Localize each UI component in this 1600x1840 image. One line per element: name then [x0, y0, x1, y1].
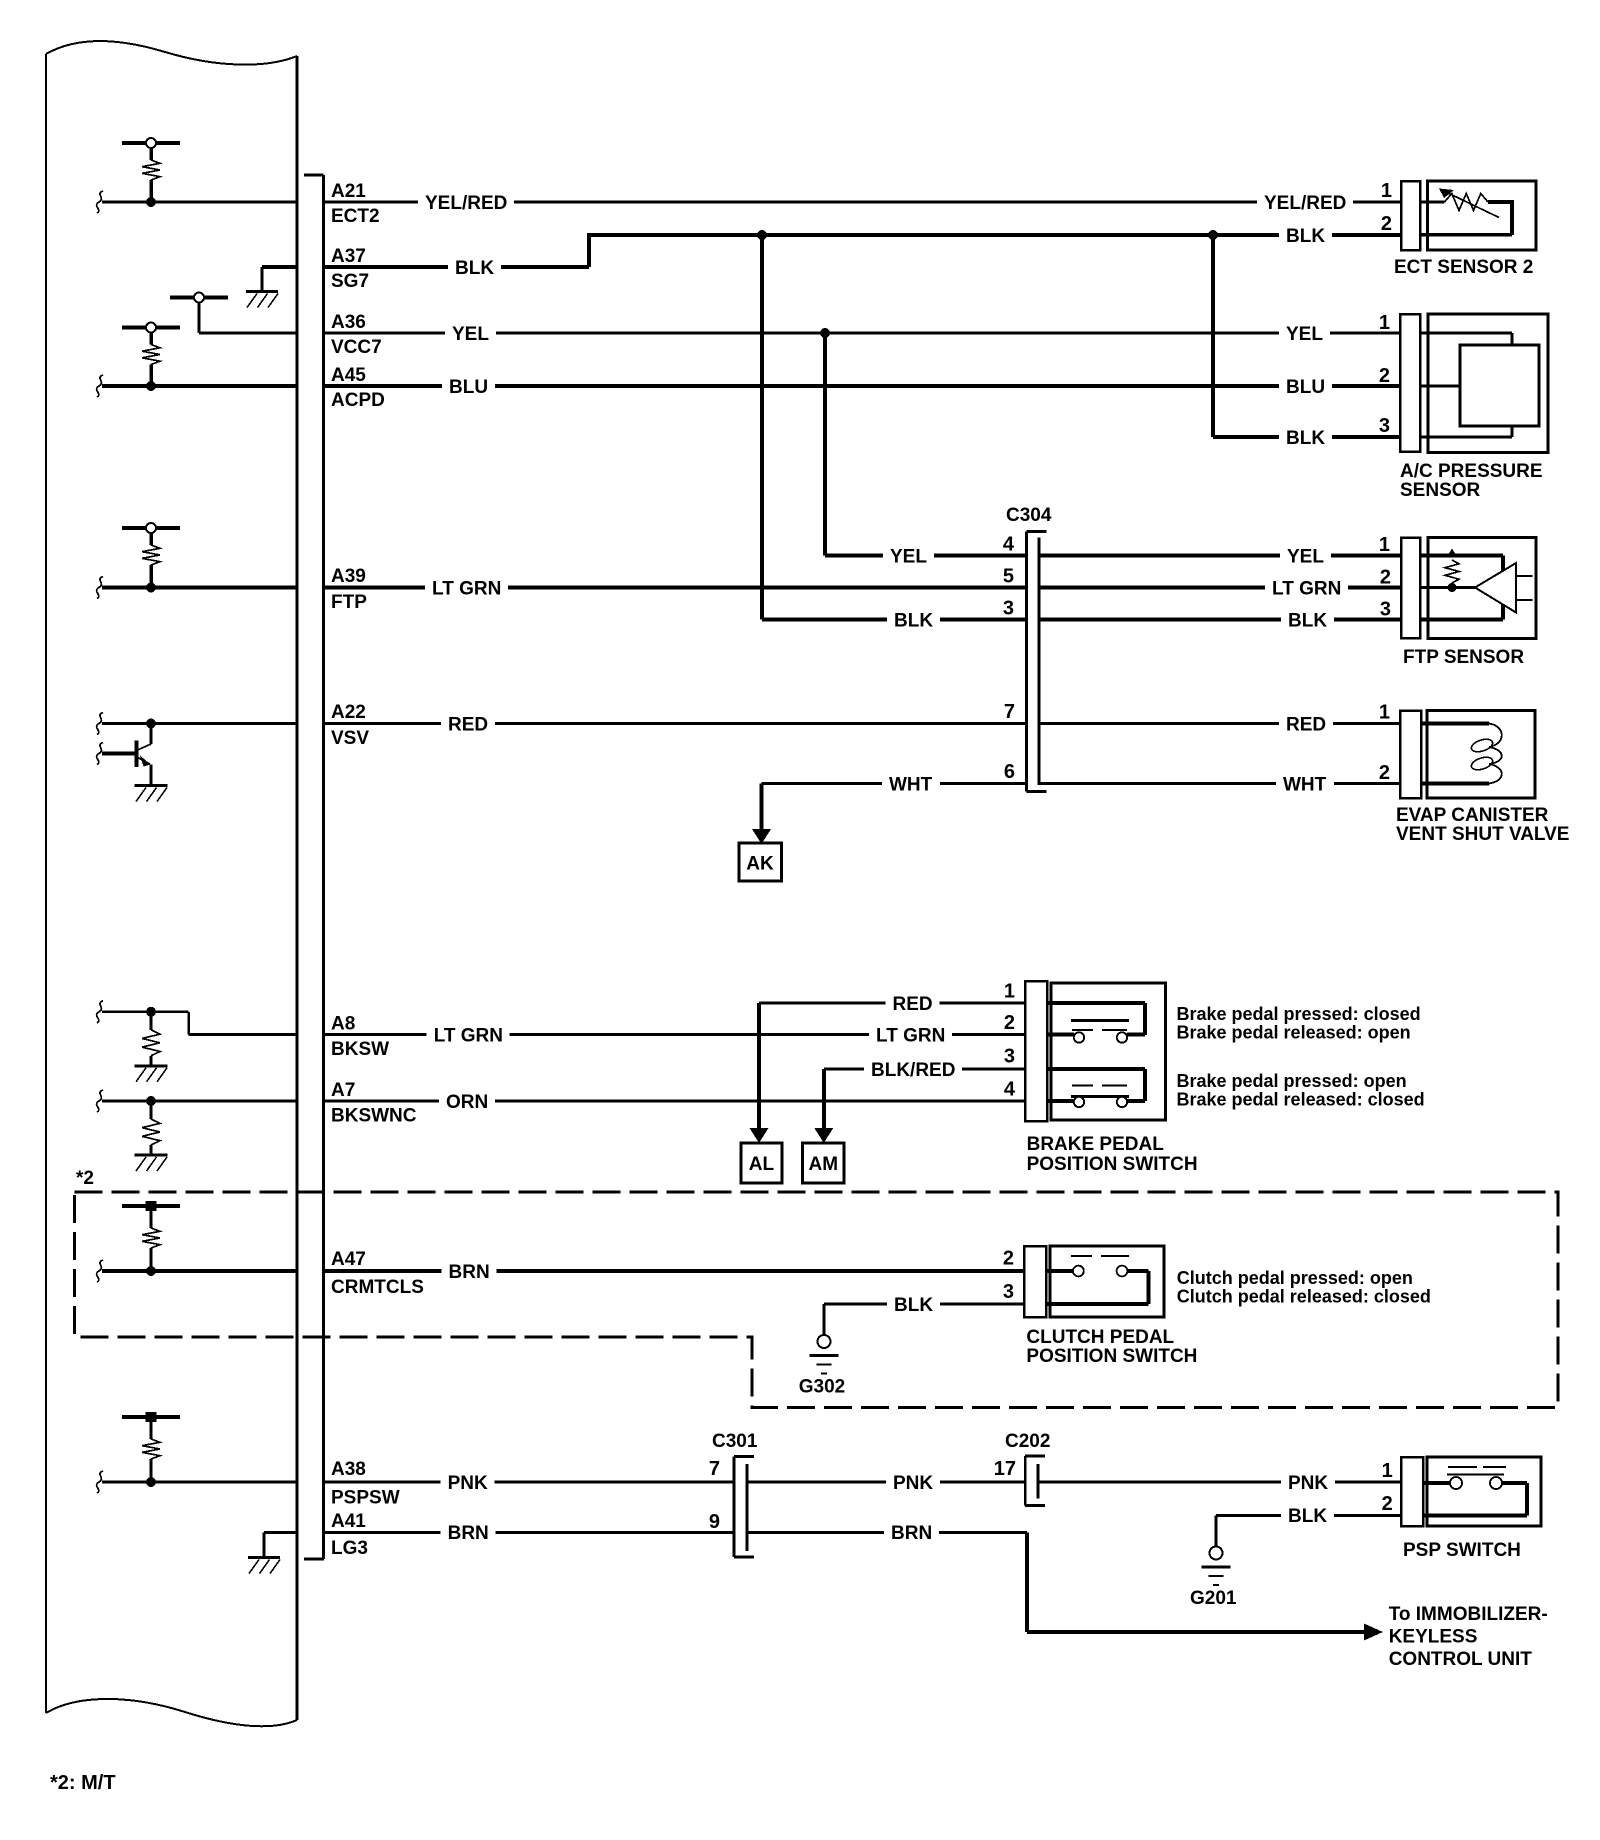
- svg-text:2: 2: [1380, 567, 1391, 589]
- PSP switch box: [1427, 1457, 1541, 1526]
- voltage tap at A36: [170, 295, 228, 299]
- M/T option dashed box: [75, 1192, 1559, 1408]
- connector AK box: [739, 843, 782, 881]
- wire A47 BRN to clutch pedal switch pin 2: [102, 1269, 1024, 1273]
- svg-text:YEL: YEL: [452, 324, 489, 345]
- wire A38 PNK to PSP switch pin 1: [102, 1481, 1401, 1484]
- svg-text:PSPSW: PSPSW: [331, 1488, 400, 1509]
- FTP sensor amplifier triangle: [1475, 563, 1516, 613]
- svg-text:1: 1: [1004, 981, 1015, 1003]
- svg-text:C202: C202: [1005, 1431, 1050, 1452]
- wire BLK from clutch switch pin 3 to G302: [824, 1303, 1024, 1306]
- svg-text:2: 2: [1379, 762, 1390, 784]
- wire A45 BLU to A/C pressure sensor pin 2: [102, 384, 1401, 388]
- brake switch pin2 stub: [1047, 1032, 1074, 1036]
- ground at LG3 inside ECM: [262, 1532, 265, 1556]
- svg-text:A8: A8: [331, 1014, 355, 1035]
- wire A41 BRN to immobilizer: [264, 1531, 1027, 1534]
- PSP switch contact bridge: [1447, 1474, 1504, 1476]
- svg-text:LT GRN: LT GRN: [432, 578, 501, 599]
- svg-text:CLUTCH PEDAL: CLUTCH PEDAL: [1026, 1327, 1174, 1348]
- wire A37 BLK: [262, 265, 589, 269]
- svg-text:AM: AM: [809, 1154, 839, 1175]
- wire BLK drop to C304 pin 3 / FTP sensor: [760, 235, 764, 620]
- FTP sensor box: [1428, 538, 1536, 639]
- svg-text:AL: AL: [749, 1154, 775, 1175]
- arrow to immobilizer-keyless control unit: [1364, 1624, 1383, 1641]
- svg-text:YEL/RED: YEL/RED: [1264, 193, 1346, 214]
- svg-text:BLU: BLU: [449, 377, 488, 398]
- svg-text:KEYLESS: KEYLESS: [1389, 1627, 1478, 1648]
- driver transistor inside ECM: [149, 724, 152, 745]
- svg-text:A39: A39: [331, 566, 366, 587]
- svg-text:RED: RED: [893, 994, 933, 1015]
- wire BRN drop and run to immobilizer arrow: [1025, 1532, 1029, 1632]
- svg-text:7: 7: [709, 1458, 720, 1480]
- pull-up resistor at A39: [122, 526, 180, 530]
- svg-text:A22: A22: [331, 702, 366, 723]
- connector C202: [1027, 1458, 1037, 1505]
- svg-text:2: 2: [1004, 1012, 1015, 1034]
- pull-up resistor at A47: [122, 1204, 180, 1208]
- junction node YEL at x825: [820, 328, 830, 338]
- break symbol A38 wire: [97, 1471, 103, 1493]
- connector C304: [1028, 533, 1038, 790]
- svg-text:BKSWNC: BKSWNC: [331, 1106, 417, 1127]
- svg-text:1: 1: [1382, 1460, 1393, 1482]
- A/C pressure sensor pin1 internal bracket: [1420, 331, 1512, 334]
- wire BLK/RED from brake pedal switch pin 3 to AM: [824, 1068, 1025, 1071]
- svg-text:PNK: PNK: [1288, 1473, 1328, 1494]
- svg-text:YEL/RED: YEL/RED: [425, 193, 507, 214]
- brake switch upper contact feed: [1047, 1001, 1145, 1005]
- svg-text:A38: A38: [331, 1459, 366, 1480]
- svg-text:Brake pedal pressed: closed: Brake pedal pressed: closed: [1177, 1004, 1421, 1024]
- brake pedal switch box: [1051, 983, 1166, 1120]
- svg-text:A47: A47: [331, 1249, 366, 1270]
- svg-text:4: 4: [1003, 534, 1015, 556]
- FTP sensor internal resistor: [1445, 560, 1459, 583]
- svg-text:LG3: LG3: [331, 1538, 368, 1559]
- FTP sensor internal bracket: [1420, 554, 1503, 558]
- svg-text:7: 7: [1004, 701, 1015, 723]
- svg-text:2: 2: [1379, 365, 1390, 387]
- svg-text:SG7: SG7: [331, 271, 369, 292]
- wire A21 YEL/RED to ECT sensor 2 pin 1: [102, 201, 1401, 204]
- svg-text:3: 3: [1379, 415, 1390, 437]
- wire WHT drop to AK: [759, 784, 763, 831]
- svg-text:YEL: YEL: [1286, 324, 1323, 345]
- PSP switch contact circles: [1450, 1477, 1462, 1489]
- svg-text:ECT2: ECT2: [331, 206, 380, 227]
- svg-text:AK: AK: [746, 854, 774, 875]
- svg-text:4: 4: [1004, 1079, 1016, 1101]
- wire BLK horizontal to ECT sensor 2 pin 2: [589, 233, 1401, 237]
- FTP sensor output stubs: [1516, 575, 1533, 577]
- wire A7 ORN to brake pedal switch pin 4: [102, 1100, 1025, 1103]
- connector C301: [735, 1458, 745, 1556]
- svg-text:Clutch pedal released: closed: Clutch pedal released: closed: [1177, 1287, 1431, 1307]
- brake switch upper bridge bar: [1071, 1019, 1129, 1022]
- svg-text:G302: G302: [799, 1377, 845, 1398]
- wire BLK from PSP switch pin 2 to G201: [1216, 1514, 1401, 1517]
- svg-text:A41: A41: [331, 1511, 366, 1532]
- svg-text:BRAKE PEDAL: BRAKE PEDAL: [1027, 1134, 1165, 1155]
- svg-text:RED: RED: [448, 714, 488, 735]
- ECM body left edge: [45, 54, 47, 1713]
- A/C pressure sensor box: [1428, 314, 1548, 453]
- svg-text:C304: C304: [1006, 505, 1052, 526]
- svg-text:WHT: WHT: [1283, 774, 1327, 795]
- wire BLK step up: [587, 233, 591, 267]
- svg-text:RED: RED: [1286, 714, 1326, 735]
- clutch switch contact circles: [1073, 1266, 1084, 1277]
- pull-up resistor at A21: [122, 141, 180, 145]
- svg-text:BRN: BRN: [448, 1523, 489, 1544]
- PSP switch contact arms: [1448, 1466, 1477, 1468]
- break symbol A7 wire: [97, 1090, 103, 1112]
- FTP sensor connector: [1401, 538, 1420, 639]
- svg-text:CONTROL UNIT: CONTROL UNIT: [1389, 1649, 1533, 1670]
- svg-text:CRMTCLS: CRMTCLS: [331, 1277, 424, 1298]
- pull-up resistor at A45: [122, 325, 180, 329]
- ECM connector strip right edge: [322, 175, 325, 1559]
- svg-text:5: 5: [1003, 566, 1014, 588]
- wire BLK drop to A/C pressure sensor pin 3: [1211, 235, 1215, 437]
- svg-text:*2: M/T: *2: M/T: [50, 1772, 116, 1794]
- clutch switch internal path: [1127, 1269, 1149, 1273]
- brake switch lower contact feed: [1047, 1067, 1145, 1071]
- svg-text:BLK: BLK: [455, 258, 494, 279]
- svg-text:BLK: BLK: [1288, 1506, 1327, 1527]
- svg-text:BLK: BLK: [1288, 610, 1327, 631]
- EVAP valve box: [1427, 711, 1535, 799]
- svg-text:LT GRN: LT GRN: [1272, 578, 1341, 599]
- junction node at transistor collector: [146, 719, 156, 729]
- svg-text:BLK: BLK: [1286, 428, 1325, 449]
- svg-text:YEL: YEL: [1287, 546, 1324, 567]
- pull-down resistor at A7: [146, 1096, 156, 1106]
- svg-text:BLK/RED: BLK/RED: [871, 1060, 955, 1081]
- svg-text:POSITION SWITCH: POSITION SWITCH: [1026, 1346, 1197, 1367]
- ground G201: [1210, 1547, 1223, 1560]
- junction node BLK at x1213: [1208, 230, 1218, 240]
- svg-text:PNK: PNK: [448, 1473, 488, 1494]
- svg-text:Clutch pedal pressed: open: Clutch pedal pressed: open: [1177, 1268, 1413, 1288]
- brake switch lower contact arms: [1072, 1085, 1093, 1087]
- clutch switch box: [1050, 1246, 1164, 1317]
- svg-text:VENT SHUT VALVE: VENT SHUT VALVE: [1396, 824, 1569, 845]
- break symbol A22 wire: [97, 713, 103, 735]
- wire WHT from C304 pin 6 to connector AK / EVAP valve pin 2: [762, 782, 1402, 785]
- break symbol A47 wire: [97, 1260, 103, 1282]
- svg-text:POSITION SWITCH: POSITION SWITCH: [1027, 1154, 1198, 1175]
- PSP switch connector: [1401, 1457, 1423, 1526]
- svg-text:BKSW: BKSW: [331, 1039, 389, 1060]
- svg-text:1: 1: [1381, 180, 1392, 202]
- svg-text:A7: A7: [331, 1080, 355, 1101]
- svg-text:BLK: BLK: [1286, 226, 1325, 247]
- svg-text:Brake pedal pressed: open: Brake pedal pressed: open: [1177, 1071, 1407, 1091]
- svg-text:BRN: BRN: [449, 1262, 490, 1283]
- FTP sensor pin2 stub to divider node: [1420, 586, 1475, 589]
- A/C pressure sensor pin2 stub: [1420, 384, 1461, 387]
- svg-text:2: 2: [1381, 213, 1392, 235]
- svg-text:3: 3: [1003, 598, 1014, 620]
- connector AM box: [803, 1143, 845, 1183]
- svg-text:Brake pedal released: open: Brake pedal released: open: [1177, 1023, 1411, 1043]
- svg-text:3: 3: [1004, 1046, 1015, 1068]
- svg-text:2: 2: [1382, 1493, 1393, 1515]
- wire A36 YEL to A/C pressure sensor pin 1: [199, 332, 1401, 335]
- wire RED from brake pedal switch pin 1 to AL: [759, 1002, 1025, 1005]
- brake pedal switch connector: [1025, 981, 1047, 1121]
- svg-text:3: 3: [1380, 599, 1391, 621]
- ECT sensor 2 box: [1428, 181, 1537, 250]
- svg-text:A21: A21: [331, 181, 366, 202]
- ECM connector gap mask: [299, 177, 322, 1557]
- svg-text:A36: A36: [331, 312, 366, 333]
- svg-text:SENSOR: SENSOR: [1400, 480, 1481, 501]
- svg-text:1: 1: [1379, 534, 1390, 556]
- svg-text:Brake pedal released: closed: Brake pedal released: closed: [1177, 1090, 1425, 1110]
- svg-text:To IMMOBILIZER-: To IMMOBILIZER-: [1389, 1604, 1548, 1625]
- svg-text:1: 1: [1379, 312, 1390, 334]
- pull-up resistor at A38: [122, 1415, 180, 1419]
- svg-text:PSP SWITCH: PSP SWITCH: [1403, 1540, 1521, 1561]
- wire A8 jog inside ECM: [102, 1010, 189, 1013]
- ECM connector strip bottom cap: [304, 1558, 324, 1561]
- arrow into AM: [814, 1128, 833, 1143]
- EVAP valve solenoid coil: [1489, 724, 1502, 784]
- svg-text:2: 2: [1003, 1248, 1014, 1270]
- svg-text:6: 6: [1004, 761, 1015, 783]
- svg-text:VSV: VSV: [331, 728, 369, 749]
- svg-text:PNK: PNK: [893, 1473, 933, 1494]
- svg-text:ORN: ORN: [446, 1092, 488, 1113]
- ECM wavy bottom edge: [46, 1699, 297, 1726]
- svg-text:LT GRN: LT GRN: [434, 1025, 503, 1046]
- brake switch upper contact arms: [1072, 1029, 1093, 1031]
- svg-text:A/C PRESSURE: A/C PRESSURE: [1400, 461, 1543, 482]
- break symbol A45 wire: [97, 375, 103, 397]
- svg-text:17: 17: [994, 1458, 1016, 1480]
- ECM connector strip top cap: [304, 174, 324, 177]
- svg-text:FTP: FTP: [331, 592, 367, 613]
- wire A8 LT GRN to brake pedal switch pin 2: [189, 1033, 1025, 1036]
- svg-text:BRN: BRN: [891, 1523, 932, 1544]
- ground at SG7 inside ECM: [260, 267, 263, 290]
- clutch switch connector: [1024, 1246, 1046, 1317]
- brake switch lower bridge bar: [1071, 1095, 1129, 1098]
- svg-text:VCC7: VCC7: [331, 337, 382, 358]
- EVAP valve connector: [1400, 711, 1421, 799]
- svg-text:3: 3: [1003, 1281, 1014, 1303]
- ECM wavy top edge: [46, 41, 297, 65]
- ECM body right edge: [296, 56, 299, 1720]
- svg-text:YEL: YEL: [890, 546, 927, 567]
- pull-down resistor at A8: [146, 1007, 156, 1017]
- break symbol A8 wire: [97, 1001, 103, 1023]
- ECT sensor 2 internal path: [1488, 200, 1514, 204]
- ECT sensor 2 thermistor resistor: [1445, 194, 1489, 211]
- brake switch lower contact circles: [1074, 1097, 1084, 1107]
- ECT sensor 2 thermistor arrow: [1447, 193, 1499, 218]
- ground G302: [818, 1335, 831, 1348]
- svg-text:BLK: BLK: [894, 610, 933, 631]
- connector AL box: [741, 1143, 782, 1183]
- ECT sensor 2 connector: [1401, 181, 1420, 250]
- svg-text:1: 1: [1379, 702, 1390, 724]
- A/C pressure sensor connector: [1400, 314, 1420, 452]
- arrow into AL: [750, 1128, 769, 1143]
- wire A22 RED to C304 pin 7 / EVAP valve pin 1: [102, 722, 1401, 725]
- break symbol A21 wire: [97, 191, 103, 213]
- brake switch pin4 stub: [1047, 1099, 1074, 1103]
- PSP switch pin1 stub: [1423, 1481, 1451, 1485]
- wire YEL drop to C304 pin 4 / FTP sensor pin 1: [823, 333, 827, 556]
- svg-text:C301: C301: [712, 1431, 758, 1452]
- svg-text:EVAP CANISTER: EVAP CANISTER: [1396, 805, 1549, 826]
- svg-text:*2: *2: [76, 1168, 94, 1189]
- svg-text:WHT: WHT: [889, 774, 933, 795]
- EVAP valve coil leads: [1421, 722, 1489, 726]
- clutch switch pin2 stub: [1046, 1269, 1073, 1273]
- clutch switch contact arms: [1071, 1255, 1092, 1257]
- svg-text:A45: A45: [331, 365, 366, 386]
- svg-text:BLK: BLK: [894, 1295, 933, 1316]
- PSP switch internal path: [1501, 1481, 1527, 1485]
- svg-text:A37: A37: [331, 246, 366, 267]
- break symbol A39 wire: [97, 577, 103, 599]
- wire A39 LT GRN to C304 pin 5 / FTP sensor pin 2: [102, 585, 1401, 589]
- svg-text:LT GRN: LT GRN: [876, 1025, 945, 1046]
- ECT sensor 2 pin1 stub into box: [1420, 200, 1445, 203]
- arrow into AK: [752, 829, 771, 844]
- A/C pressure sensor inner square: [1460, 345, 1539, 426]
- svg-text:FTP SENSOR: FTP SENSOR: [1403, 647, 1524, 668]
- svg-text:9: 9: [709, 1511, 720, 1533]
- junction node BLK at x762: [757, 230, 767, 240]
- svg-text:BLU: BLU: [1286, 377, 1325, 398]
- svg-text:G201: G201: [1190, 1588, 1237, 1609]
- svg-text:ACPD: ACPD: [331, 390, 385, 411]
- svg-text:ECT SENSOR 2: ECT SENSOR 2: [1394, 257, 1533, 278]
- A/C pressure sensor pin3 internal bracket: [1420, 435, 1512, 438]
- brake switch upper contact circles: [1074, 1032, 1084, 1042]
